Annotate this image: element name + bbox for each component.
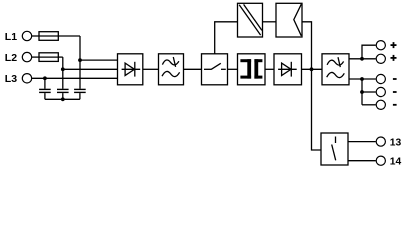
label minus 2 <box>393 91 397 93</box>
wire converter to booster <box>263 21 277 23</box>
wire L2 terminal to fuse <box>32 56 39 58</box>
booster block <box>276 3 302 37</box>
transformer block <box>238 54 266 85</box>
wire output diode to output filter <box>302 68 323 70</box>
terminal 13 <box>376 137 385 146</box>
node junction main/aux <box>310 67 314 71</box>
switch contact <box>204 68 212 70</box>
dc converter block <box>238 3 263 37</box>
wire relay to terminal 13 <box>348 141 376 143</box>
input filter block <box>159 54 184 85</box>
terminal L2 <box>22 52 31 61</box>
wire minus branch 3 <box>362 104 376 106</box>
wire L3 to rectifier input 3 <box>32 77 118 79</box>
relay contact <box>335 137 337 144</box>
diode D2 <box>278 68 297 70</box>
capacitor C2 <box>57 88 69 90</box>
wire L1 fuse to column <box>58 35 80 37</box>
wire switch to transformer <box>228 68 238 70</box>
wire L1 to rectifier input 1 <box>80 59 118 61</box>
terminal plus 1 <box>376 41 385 50</box>
terminal minus 3 <box>376 100 385 109</box>
wire L3 column down <box>44 78 46 89</box>
wire minus branch 2 <box>362 91 376 93</box>
node junction minus 1 <box>360 77 364 81</box>
converter diagonal <box>239 5 260 35</box>
node junction L3/capacitor <box>43 76 47 80</box>
wire plus branch up <box>362 45 376 59</box>
wire switch block to top converter <box>215 22 238 54</box>
switch block <box>202 54 228 85</box>
wire relay to terminal 14 <box>348 160 376 162</box>
wire capacitor star bus <box>45 98 80 100</box>
svg-text:13: 13 <box>390 137 402 148</box>
capacitor C1 <box>39 88 51 90</box>
terminal plus 2 <box>376 54 385 63</box>
terminal minus 2 <box>376 87 385 96</box>
fuse F2 <box>39 53 58 62</box>
node junction plus <box>360 57 364 61</box>
svg-text:L3: L3 <box>5 73 17 85</box>
wire L2 column down <box>62 57 64 89</box>
wire plus rail <box>349 58 376 60</box>
node junction L2/rectifier <box>61 67 65 71</box>
svg-text:L2: L2 <box>5 52 17 64</box>
wire input filter to switch <box>184 68 202 70</box>
wire L2 to rectifier input 2 <box>63 68 118 70</box>
terminal L3 <box>22 74 31 83</box>
wire L1 terminal to fuse <box>32 35 39 37</box>
crossed sine symbol <box>162 60 179 65</box>
node junction star point <box>61 97 65 101</box>
wire L1 column down <box>79 36 81 89</box>
label minus 1 <box>393 78 397 80</box>
wire L2 fuse to column <box>58 56 63 58</box>
wire booster to main node <box>302 22 312 70</box>
svg-text:L1: L1 <box>5 31 17 43</box>
booster chevron <box>294 4 302 36</box>
label plus 1 <box>391 42 397 48</box>
output filter block <box>322 54 349 85</box>
svg-text:14: 14 <box>390 156 402 167</box>
relay block <box>321 133 348 165</box>
terminal L1 <box>22 31 31 40</box>
wire rectifier to input filter <box>143 68 159 70</box>
label minus 3 <box>393 104 397 106</box>
rectifier block <box>118 54 143 85</box>
crossed sine symbol <box>327 60 344 65</box>
wire minus column <box>361 79 363 105</box>
sine symbol <box>162 71 180 76</box>
node junction L1/rectifier <box>78 58 82 62</box>
output diode block <box>274 54 302 85</box>
wire transformer to output diode <box>265 68 274 70</box>
transformer winding glyph <box>240 59 262 78</box>
capacitor C3 <box>74 88 86 90</box>
sine symbol <box>327 72 345 77</box>
diode D1 <box>122 68 141 70</box>
wire minus rail <box>349 78 376 80</box>
terminal minus 1 <box>376 74 385 83</box>
wire aux down to relay <box>312 69 322 150</box>
terminal 14 <box>376 156 385 165</box>
node junction minus 2 <box>360 90 364 94</box>
fuse F1 <box>39 32 58 41</box>
label plus 2 <box>391 55 397 61</box>
